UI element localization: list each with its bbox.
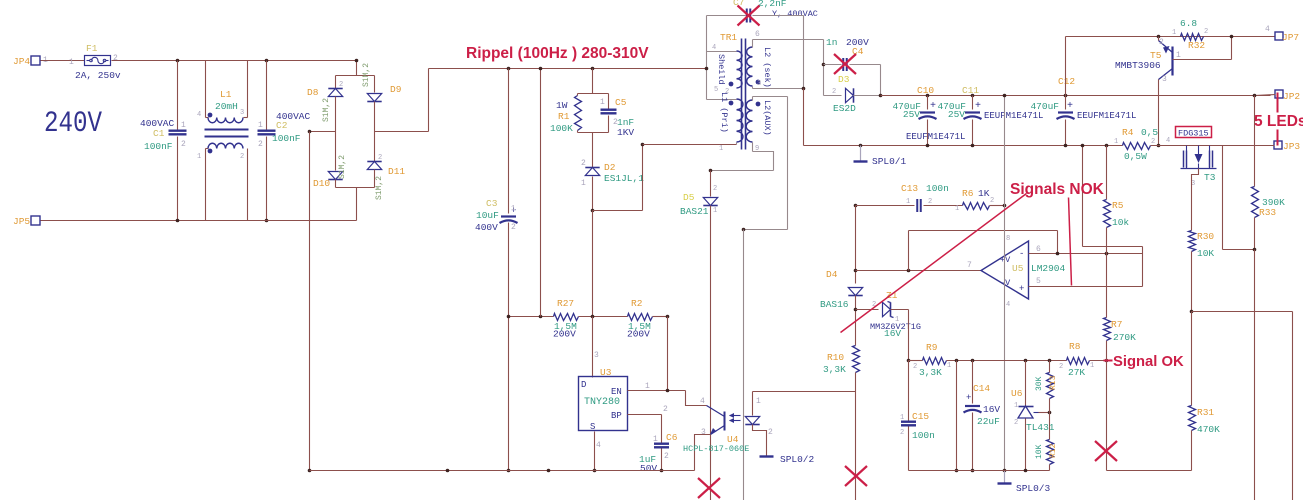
svg-text:D11: D11 bbox=[388, 166, 405, 177]
wire C4 right drop bbox=[880, 65, 882, 96]
wire zero ref link bbox=[1083, 246, 1143, 248]
svg-text:2: 2 bbox=[1151, 138, 1155, 146]
red cross over C7 bbox=[738, 6, 760, 26]
wire sense drop right bbox=[1292, 312, 1294, 500]
svg-text:2: 2 bbox=[1204, 28, 1208, 36]
wire C2 lower lead bbox=[266, 137, 268, 221]
svg-text:4: 4 bbox=[197, 111, 201, 119]
svg-text:R10: R10 bbox=[827, 352, 844, 363]
junction S bottom bbox=[593, 469, 597, 473]
svg-text:2: 2 bbox=[664, 452, 669, 461]
wire L1 pin1 riser bbox=[205, 149, 207, 221]
wire R13 to R12 bbox=[1049, 399, 1051, 440]
svg-text:S1M,2: S1M,2 bbox=[362, 63, 371, 87]
wire reg node line bbox=[947, 360, 1067, 362]
svg-text:470K: 470K bbox=[1197, 424, 1220, 435]
junction Vplus top bbox=[1003, 94, 1007, 98]
svg-text:R6: R6 bbox=[962, 188, 974, 199]
wire led anode line bbox=[753, 391, 856, 393]
svg-text:4: 4 bbox=[712, 44, 716, 52]
svg-text:2,2nF: 2,2nF bbox=[758, 0, 787, 9]
resistor R13 bbox=[1047, 373, 1054, 399]
wire snubber bottom bar bbox=[578, 132, 609, 134]
svg-text:ES2D: ES2D bbox=[833, 103, 856, 114]
svg-text:D9: D9 bbox=[390, 84, 402, 95]
diode D8 bbox=[328, 89, 342, 97]
svg-text:3: 3 bbox=[757, 80, 761, 88]
transistor T5 bbox=[1171, 47, 1173, 76]
junction C12 top bbox=[1064, 94, 1068, 98]
wire JP4 to fuse F1 bbox=[41, 60, 85, 62]
wire C13 right lead bbox=[924, 205, 963, 207]
wire sek bottom line bbox=[753, 88, 804, 90]
svg-text:6: 6 bbox=[1036, 245, 1041, 254]
svg-text:S1M,2: S1M,2 bbox=[375, 176, 384, 200]
junction Z1 left bbox=[854, 308, 858, 312]
svg-text:R33: R33 bbox=[1259, 207, 1276, 218]
capacitor C5 bbox=[601, 108, 617, 110]
wire BP pin wire bbox=[628, 414, 662, 416]
connector JP3 bbox=[1274, 141, 1282, 149]
wire bridge top feed bbox=[356, 61, 358, 76]
svg-text:27K: 27K bbox=[1068, 367, 1085, 378]
wire drain line to TR1 bbox=[643, 144, 737, 146]
svg-text:MMBT3906: MMBT3906 bbox=[1115, 60, 1161, 71]
svg-text:1: 1 bbox=[719, 145, 723, 153]
wire primary top stub bbox=[707, 99, 737, 101]
shunt U6 TL431 bbox=[1019, 406, 1034, 408]
svg-text:2: 2 bbox=[258, 140, 263, 149]
svg-text:-V: -V bbox=[1000, 278, 1011, 288]
diode D11 bbox=[367, 162, 381, 170]
svg-text:4: 4 bbox=[1006, 301, 1010, 309]
svg-text:1: 1 bbox=[900, 414, 904, 422]
svg-text:D: D bbox=[581, 380, 586, 390]
wire C11 upper lead bbox=[972, 96, 974, 110]
wire R31 bottom rail bbox=[1107, 470, 1192, 472]
resistor R9 bbox=[923, 358, 947, 365]
svg-text:+: + bbox=[1067, 101, 1073, 112]
svg-text:2: 2 bbox=[240, 153, 244, 161]
svg-text:1: 1 bbox=[653, 435, 658, 444]
junction rail a bbox=[446, 469, 450, 473]
wire zero ref drop bbox=[1082, 146, 1084, 247]
svg-text:R9: R9 bbox=[926, 342, 938, 353]
resistor R12 bbox=[1047, 440, 1054, 465]
wire EN to opto bbox=[686, 391, 707, 406]
wire T3 source drop bbox=[1192, 169, 1199, 231]
junction bridge top bbox=[355, 59, 359, 63]
wire aux return jog bbox=[753, 152, 774, 171]
svg-text:25V: 25V bbox=[903, 109, 920, 120]
junction D3 right bbox=[879, 94, 883, 98]
junction C10 bottom bbox=[926, 144, 930, 148]
svg-text:Rippel (100Hz ) 280-310V: Rippel (100Hz ) 280-310V bbox=[466, 45, 649, 62]
svg-text:4: 4 bbox=[596, 441, 601, 450]
junction R13 top bbox=[1048, 359, 1052, 363]
wire C6 lower lead bbox=[661, 449, 663, 471]
annotation box FDG315 bbox=[1176, 127, 1212, 138]
wire V+ supply column bbox=[1004, 96, 1006, 242]
resistor R6 bbox=[963, 203, 990, 210]
wire bridge bottom feed bbox=[356, 188, 358, 221]
svg-text:2: 2 bbox=[511, 223, 516, 232]
capacitor C14 bbox=[965, 405, 980, 407]
junction R5 top bbox=[1105, 144, 1109, 148]
junction C3 top bbox=[507, 67, 511, 71]
fuse F1 bbox=[85, 56, 111, 66]
wire C3 upper lead bbox=[508, 69, 510, 214]
svg-text:R1: R1 bbox=[558, 111, 570, 122]
svg-text:2: 2 bbox=[1059, 363, 1063, 371]
junction in- feedback bbox=[1056, 252, 1060, 256]
wire in+ pin wire bbox=[1029, 286, 1143, 288]
svg-text:2: 2 bbox=[725, 88, 729, 96]
wire R7 in- segment bbox=[1106, 254, 1108, 287]
wire L1 pin3 riser bbox=[247, 61, 249, 118]
junction TL431 top bbox=[1024, 359, 1028, 363]
wire D10 anode lead bbox=[335, 132, 337, 171]
wire R27 feed riser bbox=[540, 69, 542, 317]
svg-text:JP7: JP7 bbox=[1282, 32, 1299, 43]
annotation arrow to zener bbox=[841, 194, 1027, 333]
L1 bottom winding bbox=[208, 143, 243, 148]
wire bridge minus stub bbox=[310, 131, 336, 133]
junction R2 right bbox=[666, 315, 670, 319]
junction R27 feed top bbox=[539, 67, 543, 71]
wire C1 lower lead bbox=[177, 137, 179, 221]
wire BP to C6 bbox=[661, 415, 663, 444]
wire feedback riser bbox=[908, 231, 910, 271]
svg-text:HCPL-817-060E: HCPL-817-060E bbox=[683, 444, 749, 454]
wire V- column bbox=[1004, 242, 1006, 471]
junction bridge minus bbox=[308, 130, 312, 134]
red cross signalok bbox=[1095, 441, 1117, 461]
junction R33 bottom bbox=[1253, 248, 1257, 252]
svg-text:FDG315: FDG315 bbox=[1178, 129, 1209, 139]
svg-text:470uF: 470uF bbox=[1030, 101, 1059, 112]
svg-text:D10: D10 bbox=[313, 178, 330, 189]
wire B+ riser bbox=[428, 69, 430, 132]
wire D8 cathode lead bbox=[335, 76, 337, 89]
wire aux feed column bbox=[787, 97, 789, 230]
svg-text:C10: C10 bbox=[917, 85, 934, 96]
IC U3 body bbox=[579, 377, 628, 431]
wire drain link vertical bbox=[642, 145, 644, 211]
opto U4 transistor bbox=[724, 412, 726, 431]
resistor R30 bbox=[1189, 231, 1196, 252]
wire sek top stub bbox=[752, 40, 754, 48]
wire T5 rail drop bbox=[1065, 37, 1067, 96]
svg-text:EEUFM1E471L: EEUFM1E471L bbox=[1077, 111, 1136, 121]
wire R13 upper lead bbox=[1049, 361, 1051, 373]
svg-text:D3: D3 bbox=[838, 74, 850, 85]
wire sense line bbox=[1192, 311, 1293, 313]
wire EN feed drop bbox=[667, 317, 669, 391]
wire U4 emitter lead bbox=[695, 435, 711, 471]
svg-text:1: 1 bbox=[197, 153, 201, 161]
wire secondary plus rail bbox=[881, 95, 1271, 97]
connector JP5 bbox=[31, 216, 40, 225]
svg-text:C3: C3 bbox=[486, 198, 498, 209]
TR1 sek winding bbox=[747, 47, 753, 86]
wire D4 feed column bbox=[855, 206, 857, 284]
junction C11 bottom bbox=[971, 144, 975, 148]
svg-text:L2 (sek): L2 (sek) bbox=[762, 47, 772, 88]
svg-text:3: 3 bbox=[240, 109, 244, 117]
junction EN node bbox=[666, 389, 670, 393]
svg-text:R7: R7 bbox=[1111, 319, 1122, 330]
junction T5 collector bottom bbox=[1157, 144, 1161, 148]
junction C10 top bbox=[926, 94, 930, 98]
wire R4 to mosfet bbox=[1151, 145, 1275, 147]
wire TL431 anode bbox=[1025, 419, 1027, 471]
junction R9 left bbox=[907, 359, 911, 363]
junction C1 top bbox=[176, 59, 180, 63]
svg-text:C15: C15 bbox=[912, 411, 929, 422]
wire aux bottom stub bbox=[752, 143, 754, 152]
polarity dot TR1 aux bbox=[756, 102, 761, 107]
svg-text:1K: 1K bbox=[978, 188, 990, 199]
wire bottom AC rail bbox=[41, 220, 357, 222]
wire secondary ground rail bbox=[909, 470, 1050, 472]
wire DC minus column bbox=[309, 132, 311, 471]
resistor R27 bbox=[554, 314, 579, 321]
svg-text:200V: 200V bbox=[627, 329, 650, 340]
diode D10 bbox=[328, 172, 342, 180]
wire snubber to D2 bbox=[592, 133, 594, 168]
svg-text:1: 1 bbox=[1172, 29, 1176, 37]
L1 top winding bbox=[208, 118, 243, 123]
wire secondary zero rail bbox=[804, 145, 1123, 147]
svg-text:R13: R13 bbox=[1049, 375, 1058, 390]
opto U4 led bbox=[745, 417, 759, 425]
diode D9 bbox=[367, 94, 381, 102]
svg-text:3: 3 bbox=[701, 428, 706, 437]
opto U4 light arrows bbox=[730, 415, 741, 417]
wire D4 to Z1 node bbox=[855, 296, 857, 346]
svg-text:4: 4 bbox=[1166, 137, 1170, 145]
svg-text:+: + bbox=[930, 101, 936, 112]
svg-text:2: 2 bbox=[181, 140, 186, 149]
wire R31 lower lead bbox=[1191, 431, 1193, 471]
wire R10 lower lead bbox=[855, 373, 857, 392]
svg-text:1: 1 bbox=[181, 121, 186, 130]
svg-text:C1: C1 bbox=[153, 128, 165, 139]
wire C15 lower lead bbox=[908, 427, 910, 471]
wire R5 upper lead bbox=[1106, 146, 1108, 200]
svg-text:22uF: 22uF bbox=[977, 416, 1000, 427]
wire D2 anode lead bbox=[592, 177, 594, 211]
wire C7 right lead bbox=[753, 15, 804, 17]
resistor R8 bbox=[1067, 358, 1090, 365]
wire C15 column upper bbox=[908, 361, 910, 421]
svg-text:R12: R12 bbox=[1049, 443, 1058, 458]
wire C14 upper lead bbox=[972, 361, 974, 404]
wire C4 right lead bbox=[850, 64, 881, 66]
resistor R7 bbox=[1104, 318, 1111, 341]
svg-text:1: 1 bbox=[713, 207, 717, 215]
capacitor C4 bbox=[842, 58, 844, 71]
wire primary ground rail bbox=[310, 470, 695, 472]
svg-text:100nF: 100nF bbox=[272, 133, 301, 144]
junction sek bottom bbox=[802, 87, 806, 91]
red cross over C4 bbox=[834, 54, 856, 74]
wire signalok column bbox=[1106, 361, 1108, 471]
svg-text:7: 7 bbox=[967, 261, 972, 270]
svg-text:C2: C2 bbox=[276, 120, 288, 131]
svg-text:F1: F1 bbox=[86, 43, 98, 54]
resistor R31 bbox=[1189, 406, 1196, 431]
svg-text:270K: 270K bbox=[1113, 332, 1136, 343]
wire JP2 stub bbox=[1255, 95, 1276, 96]
wire aux feed bottom bbox=[744, 229, 788, 231]
junction D5 top bbox=[709, 169, 713, 173]
wire T3 right drop bbox=[1222, 146, 1224, 250]
svg-text:SPL0/2: SPL0/2 bbox=[780, 454, 815, 465]
diode D4 bbox=[848, 288, 862, 296]
wire C7 left lead bbox=[707, 15, 746, 17]
svg-text:EN: EN bbox=[611, 387, 622, 397]
svg-text:S: S bbox=[590, 422, 595, 432]
wire R33 column upper bbox=[1254, 96, 1256, 187]
wire U4 led anode lead bbox=[752, 392, 754, 416]
wire C12 upper lead bbox=[1065, 96, 1067, 110]
svg-text:10k: 10k bbox=[1112, 217, 1129, 228]
wire C7 left riser bbox=[706, 16, 708, 100]
junction R30 R31 bbox=[1190, 310, 1194, 314]
svg-text:2: 2 bbox=[990, 197, 994, 205]
junction C2 bottom bbox=[265, 219, 269, 223]
svg-text:R2: R2 bbox=[631, 298, 643, 309]
svg-text:100n: 100n bbox=[912, 430, 935, 441]
wire opamp output line bbox=[856, 270, 982, 272]
polarity dot TR1 shield bbox=[729, 82, 734, 87]
resistor R5 bbox=[1104, 200, 1111, 228]
svg-text:BAS21: BAS21 bbox=[680, 206, 709, 217]
wire C1 upper lead bbox=[177, 61, 179, 130]
wire L1 bottom winding left stub bbox=[206, 148, 209, 150]
wire aux top line bbox=[753, 96, 788, 98]
resistor R4 bbox=[1123, 143, 1151, 150]
junction C14 bottom bbox=[971, 469, 975, 473]
svg-text:R8: R8 bbox=[1069, 341, 1081, 352]
svg-text:6: 6 bbox=[755, 30, 760, 39]
junction R27 left bbox=[507, 315, 511, 319]
svg-text:R30: R30 bbox=[1197, 231, 1214, 242]
wire R7 lower lead bbox=[1106, 341, 1108, 361]
svg-text:C12: C12 bbox=[1058, 76, 1075, 87]
svg-text:TNY280: TNY280 bbox=[584, 397, 620, 408]
zener Z1 bbox=[883, 302, 891, 316]
svg-text:LM2904: LM2904 bbox=[1031, 263, 1066, 274]
wire EN pin wire bbox=[628, 390, 686, 392]
svg-text:R27: R27 bbox=[557, 298, 574, 309]
junction TL431 bottom bbox=[1024, 469, 1028, 473]
svg-text:2: 2 bbox=[1159, 38, 1164, 47]
capacitor C13 bbox=[916, 199, 918, 212]
wire R30 lower lead bbox=[1191, 252, 1193, 312]
wire bridge plus link bbox=[375, 131, 429, 133]
svg-text:2: 2 bbox=[113, 54, 118, 63]
junction drain R27R2 bbox=[591, 315, 595, 319]
wire sek top line bbox=[753, 39, 824, 41]
junction drain node bbox=[591, 209, 595, 213]
wire C4 branch upper bbox=[823, 40, 825, 96]
svg-text:2: 2 bbox=[663, 405, 668, 414]
junction feedback tee bbox=[907, 269, 911, 273]
connector JP7 bbox=[1275, 32, 1283, 40]
svg-text:EEUFM1E471L: EEUFM1E471L bbox=[984, 111, 1043, 121]
wire bridge top tee bbox=[336, 75, 375, 77]
wire feedback top line bbox=[909, 230, 1058, 232]
mosfet T3 bbox=[1186, 146, 1188, 151]
capacitor C7 bbox=[746, 9, 748, 23]
svg-text:5: 5 bbox=[714, 86, 718, 94]
svg-text:Sheild: Sheild bbox=[716, 54, 726, 85]
svg-text:JP2: JP2 bbox=[1283, 91, 1300, 102]
core of L1 bbox=[205, 129, 249, 131]
svg-text:2: 2 bbox=[832, 88, 836, 96]
wire T5 rail bbox=[1066, 36, 1276, 38]
wire R27 to R2 bbox=[579, 316, 628, 318]
wire D11 cathode lead bbox=[374, 132, 376, 162]
ground SPL0/3 bbox=[998, 482, 1012, 484]
svg-text:4: 4 bbox=[1265, 25, 1270, 34]
svg-text:+V: +V bbox=[1000, 255, 1011, 265]
svg-text:BP: BP bbox=[611, 411, 622, 421]
wire R8 right lead bbox=[1090, 360, 1107, 362]
svg-text:2: 2 bbox=[713, 185, 717, 193]
wire C2 upper lead bbox=[266, 61, 268, 130]
svg-text:2: 2 bbox=[768, 428, 773, 437]
svg-text:S1M,2: S1M,2 bbox=[322, 98, 331, 122]
wire R12 lower lead bbox=[1049, 465, 1051, 471]
svg-text:30K: 30K bbox=[1035, 376, 1044, 391]
wire R7 upper lead bbox=[1106, 287, 1108, 318]
junction DC minus bottom bbox=[308, 469, 312, 473]
svg-text:BAS16: BAS16 bbox=[820, 299, 849, 310]
svg-text:D4: D4 bbox=[826, 269, 838, 280]
wire snubber top bar bbox=[578, 93, 609, 95]
wire primary bottom stub bbox=[736, 143, 738, 145]
junction in- R5 bbox=[1105, 252, 1109, 256]
junction JP2 node bbox=[1253, 94, 1257, 98]
svg-text:T3: T3 bbox=[1204, 172, 1216, 183]
wire shield top stub bbox=[707, 51, 737, 53]
svg-text:1KV: 1KV bbox=[617, 127, 634, 138]
svg-text:U5: U5 bbox=[1012, 263, 1024, 274]
junction SPL0/1 bbox=[859, 144, 863, 148]
wire R5 lower lead bbox=[1106, 228, 1108, 254]
svg-text:1: 1 bbox=[947, 362, 951, 370]
capacitor C11 bbox=[965, 111, 980, 113]
resistor R2 bbox=[628, 314, 653, 321]
junction C12 bottom bbox=[1064, 144, 1068, 148]
svg-text:C6: C6 bbox=[666, 432, 678, 443]
svg-text:ES1JL,1: ES1JL,1 bbox=[604, 173, 644, 184]
svg-text:200V: 200V bbox=[553, 329, 576, 340]
svg-text:SPL0/1: SPL0/1 bbox=[872, 156, 907, 167]
annotation signal ok tick bbox=[1104, 360, 1113, 362]
wire C11 lower lead bbox=[972, 120, 974, 146]
junction C2 top bbox=[265, 59, 269, 63]
TR1 primary winding bbox=[737, 99, 743, 142]
wire L1 top winding left stub bbox=[206, 117, 209, 119]
svg-text:1: 1 bbox=[955, 205, 959, 213]
svg-text:TR1: TR1 bbox=[720, 32, 737, 43]
svg-text:-: - bbox=[1019, 249, 1024, 259]
